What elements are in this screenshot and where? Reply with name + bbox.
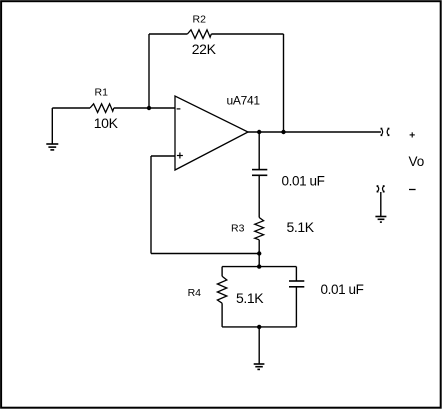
wire bbox=[52, 107, 90, 109]
wire bbox=[258, 132, 260, 170]
terminal T2 bbox=[377, 185, 385, 192]
node junction bbox=[147, 106, 151, 110]
capacitor C1 bbox=[252, 170, 325, 189]
svg-text:R3: R3 bbox=[231, 223, 245, 235]
svg-text:5.1K: 5.1K bbox=[236, 290, 264, 306]
terminal T1 bbox=[381, 128, 390, 136]
wire bbox=[114, 107, 175, 109]
node junction bbox=[257, 325, 261, 329]
wire bbox=[222, 266, 296, 268]
label plus bbox=[410, 132, 415, 137]
ground G2 bbox=[254, 327, 265, 370]
wire bbox=[295, 287, 297, 327]
svg-text:0.01 uF: 0.01 uF bbox=[321, 282, 364, 297]
svg-text:R1: R1 bbox=[95, 86, 109, 98]
wire bbox=[211, 33, 283, 35]
wire bbox=[148, 34, 150, 108]
svg-text:R2: R2 bbox=[193, 13, 207, 25]
op-amp U1 uA741 bbox=[175, 93, 260, 170]
wire bbox=[221, 303, 223, 327]
resistor R3 bbox=[231, 218, 315, 240]
wire bbox=[149, 33, 187, 35]
resistor R2 bbox=[187, 13, 216, 57]
node junction bbox=[281, 130, 285, 134]
wire bbox=[258, 254, 260, 267]
resistor R4 bbox=[188, 276, 265, 306]
wire bbox=[222, 326, 296, 328]
ground G3 bbox=[375, 192, 386, 222]
resistor R1 bbox=[90, 86, 119, 131]
svg-text:5.1K: 5.1K bbox=[287, 219, 315, 235]
svg-text:10K: 10K bbox=[94, 115, 119, 131]
wire bbox=[283, 34, 285, 132]
ground G1 bbox=[46, 108, 58, 150]
node junction bbox=[257, 264, 261, 268]
wire bbox=[248, 131, 381, 133]
svg-text:uA741: uA741 bbox=[227, 93, 261, 107]
svg-text:0.01 uF: 0.01 uF bbox=[282, 174, 325, 189]
svg-text:22K: 22K bbox=[192, 41, 217, 57]
wire bbox=[221, 267, 223, 277]
wire bbox=[258, 240, 260, 254]
svg-text:R4: R4 bbox=[188, 287, 202, 299]
wire bbox=[295, 267, 297, 281]
wire bbox=[258, 175, 260, 217]
label minus bbox=[409, 189, 416, 191]
node junction bbox=[257, 251, 261, 255]
svg-text:Vo: Vo bbox=[409, 154, 425, 169]
node junction bbox=[257, 130, 261, 134]
capacitor C2 bbox=[289, 281, 364, 297]
wire bbox=[151, 156, 259, 254]
